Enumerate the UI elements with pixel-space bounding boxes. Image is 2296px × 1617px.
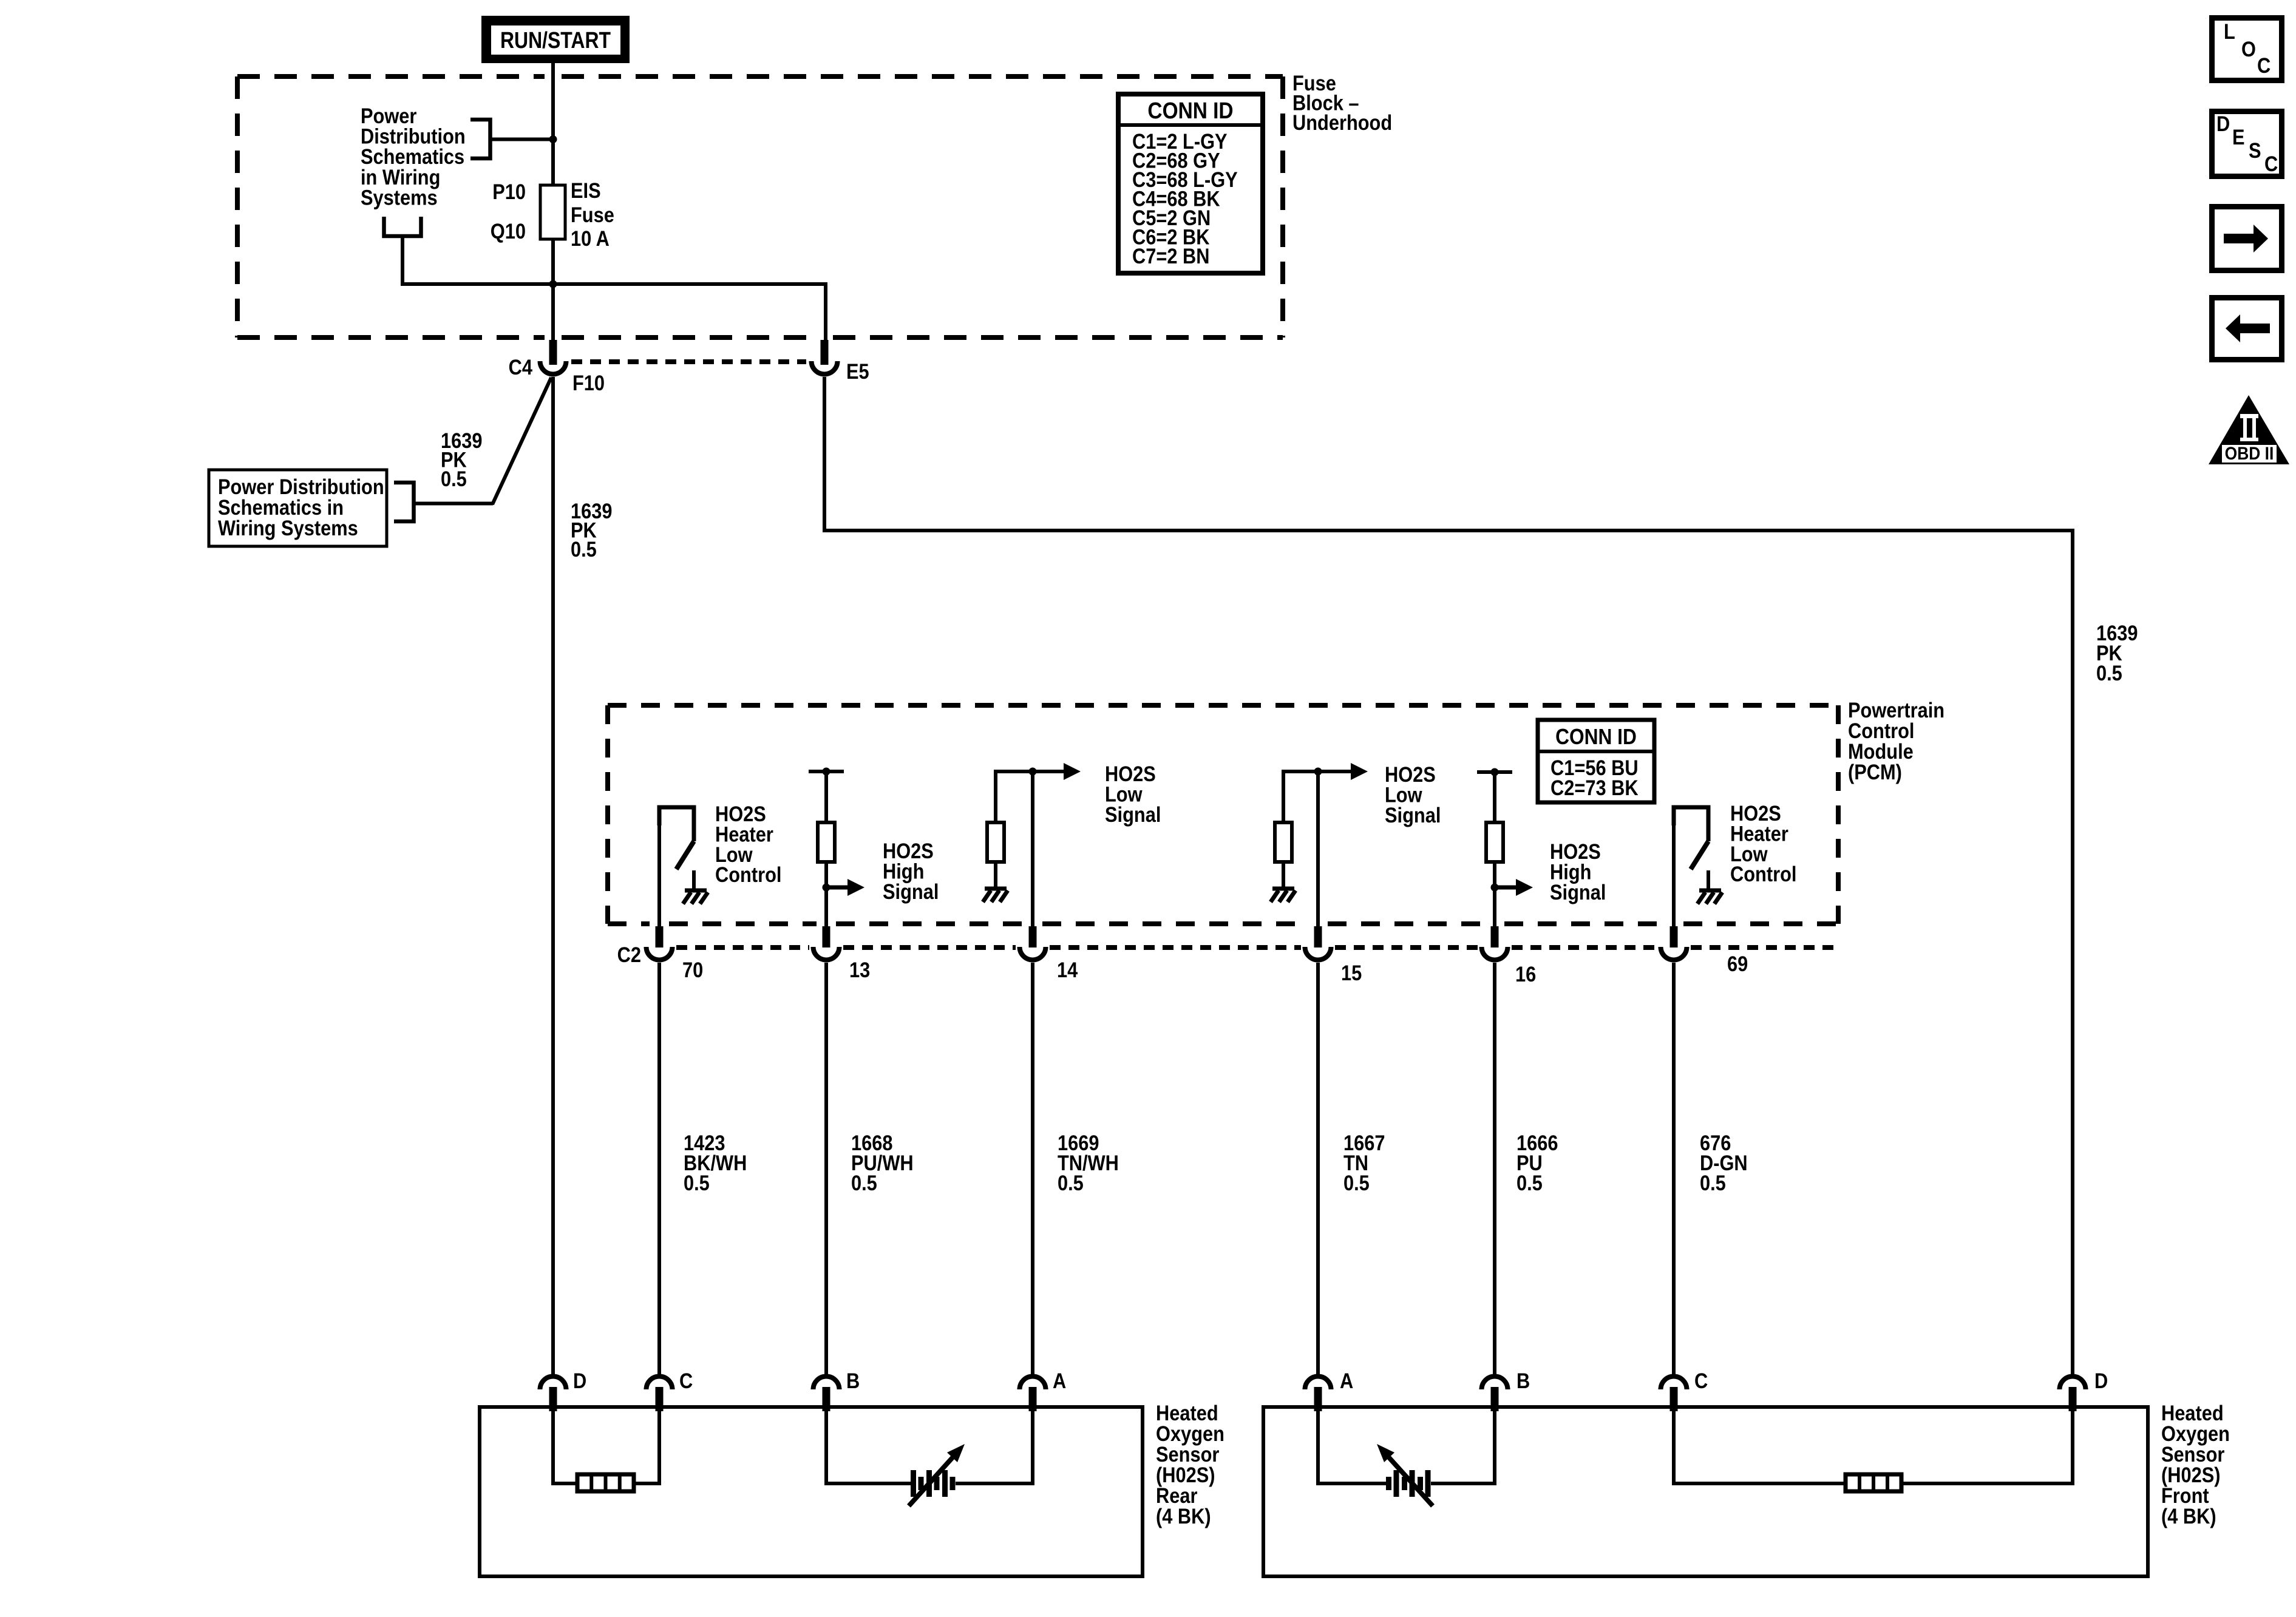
svg-text:Wiring Systems: Wiring Systems bbox=[218, 516, 358, 540]
svg-text:RUN/START: RUN/START bbox=[500, 27, 611, 53]
svg-text:EIS: EIS bbox=[571, 178, 601, 202]
svg-text:Control: Control bbox=[1730, 862, 1796, 886]
svg-text:0.5: 0.5 bbox=[1700, 1171, 1726, 1195]
svg-text:0.5: 0.5 bbox=[1058, 1171, 1084, 1195]
svg-text:CONN ID: CONN ID bbox=[1555, 725, 1637, 749]
svg-text:C: C bbox=[679, 1369, 693, 1392]
svg-text:OBD II: OBD II bbox=[2225, 442, 2274, 463]
svg-text:(PCM): (PCM) bbox=[1848, 760, 1902, 784]
svg-text:Control: Control bbox=[715, 863, 781, 886]
svg-text:C2=73 BK: C2=73 BK bbox=[1550, 776, 1639, 799]
svg-text:D: D bbox=[2094, 1369, 2108, 1392]
svg-text:A: A bbox=[1053, 1369, 1066, 1392]
svg-text:(4 BK): (4 BK) bbox=[2161, 1504, 2216, 1528]
svg-text:Fuse: Fuse bbox=[571, 203, 614, 226]
svg-text:0.5: 0.5 bbox=[2096, 661, 2122, 685]
svg-text:L: L bbox=[2224, 19, 2235, 43]
svg-text:14: 14 bbox=[1057, 958, 1078, 981]
svg-text:S: S bbox=[2249, 138, 2261, 162]
svg-text:Signal: Signal bbox=[1105, 802, 1161, 826]
svg-text:C: C bbox=[2257, 53, 2271, 77]
svg-text:0.5: 0.5 bbox=[851, 1171, 877, 1195]
svg-text:0.5: 0.5 bbox=[684, 1171, 710, 1195]
svg-text:0.5: 0.5 bbox=[1517, 1171, 1543, 1195]
svg-text:C: C bbox=[2264, 152, 2278, 175]
svg-text:69: 69 bbox=[1727, 952, 1748, 975]
svg-text:Signal: Signal bbox=[883, 880, 939, 903]
svg-text:B: B bbox=[846, 1369, 860, 1392]
svg-text:0.5: 0.5 bbox=[571, 537, 597, 561]
svg-text:Underhood: Underhood bbox=[1292, 110, 1392, 134]
svg-text:B: B bbox=[1517, 1369, 1530, 1392]
svg-text:0.5: 0.5 bbox=[1343, 1171, 1370, 1195]
svg-text:F10: F10 bbox=[572, 371, 605, 395]
svg-text:16: 16 bbox=[1515, 962, 1536, 986]
svg-text:A: A bbox=[1340, 1369, 1353, 1392]
svg-text:C2: C2 bbox=[617, 943, 641, 966]
svg-text:C: C bbox=[1694, 1369, 1708, 1392]
svg-text:E: E bbox=[2232, 125, 2245, 149]
svg-text:D: D bbox=[2216, 112, 2230, 135]
svg-text:C4: C4 bbox=[509, 355, 533, 379]
svg-text:13: 13 bbox=[849, 958, 870, 981]
svg-text:O: O bbox=[2241, 37, 2256, 61]
svg-text:10 A: 10 A bbox=[571, 226, 610, 250]
svg-text:70: 70 bbox=[682, 958, 703, 981]
svg-text:Signal: Signal bbox=[1385, 803, 1441, 827]
svg-text:E5: E5 bbox=[846, 359, 869, 383]
svg-text:Systems: Systems bbox=[361, 186, 438, 209]
svg-text:15: 15 bbox=[1341, 961, 1362, 985]
svg-text:CONN ID: CONN ID bbox=[1147, 98, 1233, 123]
svg-text:C7=2 BN: C7=2 BN bbox=[1132, 244, 1209, 268]
svg-text:D: D bbox=[573, 1369, 586, 1392]
svg-text:Signal: Signal bbox=[1550, 880, 1606, 904]
svg-text:P10: P10 bbox=[492, 180, 526, 203]
svg-text:(4 BK): (4 BK) bbox=[1156, 1504, 1211, 1528]
svg-text:Q10: Q10 bbox=[491, 219, 526, 243]
svg-text:0.5: 0.5 bbox=[441, 467, 467, 490]
